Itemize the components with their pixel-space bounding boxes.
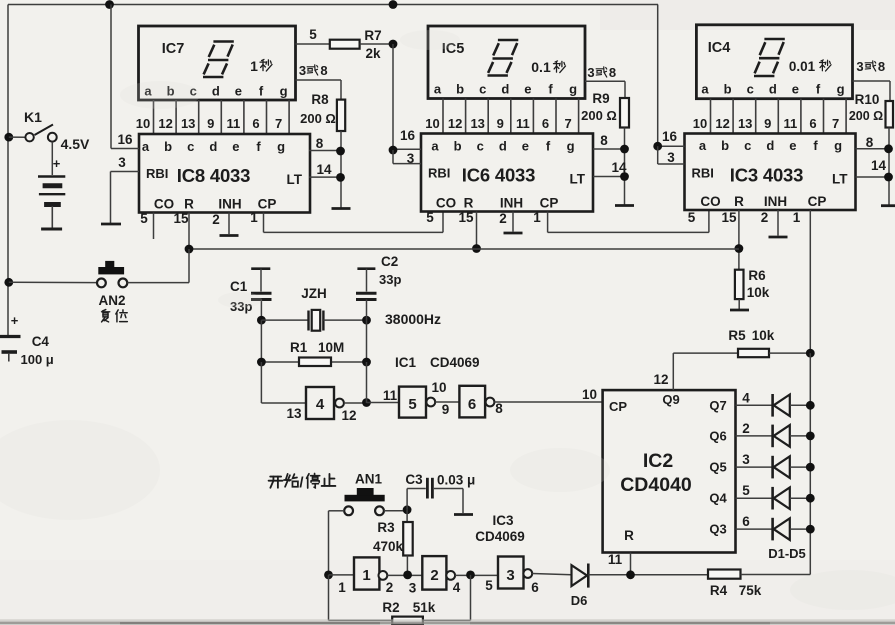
- pin numbers 10 12 13 9 11 6 7 of IC8: [136, 116, 282, 131]
- svg-text:CO: CO: [436, 196, 456, 211]
- svg-text:f: f: [813, 138, 818, 153]
- svg-text:g: g: [569, 82, 577, 97]
- svg-text:b: b: [724, 82, 732, 97]
- wire: Q3 output to diode D5: [736, 528, 773, 530]
- junction: gate2 output / R2 feedback node: [466, 571, 475, 580]
- svg-text:16: 16: [662, 129, 678, 144]
- wire: IC8 pin 8 to R8 column: [309, 150, 341, 152]
- svg-text:1: 1: [250, 210, 258, 225]
- svg-text:33p: 33p: [379, 272, 401, 287]
- IC6 input letters a-g: [431, 139, 574, 154]
- svg-text:3: 3: [667, 150, 675, 165]
- svg-text:C4: C4: [32, 334, 50, 349]
- capacitor C2 33p: [356, 293, 377, 299]
- wire: AN1 left contact to gate1 input node: [329, 510, 345, 512]
- svg-text:2: 2: [212, 212, 220, 227]
- svg-text:5: 5: [426, 210, 434, 225]
- junction: left rail / K1: [4, 133, 13, 142]
- svg-text:R9: R9: [592, 91, 609, 106]
- svg-text:15: 15: [458, 210, 474, 225]
- wire: crystal left lead: [261, 319, 308, 321]
- svg-text:R4: R4: [710, 583, 728, 598]
- svg-text:75k: 75k: [739, 583, 762, 598]
- svg-text:g: g: [280, 84, 288, 99]
- svg-text:10: 10: [425, 116, 439, 131]
- gate 5 output bubble: [426, 398, 435, 407]
- svg-text:14: 14: [871, 158, 887, 173]
- svg-text:CO: CO: [154, 197, 174, 212]
- svg-text:100 μ: 100 μ: [21, 352, 54, 367]
- svg-text:Q5: Q5: [709, 460, 726, 475]
- junction: crystal left node: [257, 316, 266, 325]
- wire: Q5 output to diode D3: [736, 466, 773, 468]
- svg-text:12: 12: [448, 116, 462, 131]
- ground: IC8 INH: [220, 234, 239, 237]
- switch K1 contacts and lever: [25, 125, 56, 142]
- display IC4 (7-segment LED) box: [696, 25, 852, 99]
- junction: D2 on common rail: [806, 432, 815, 441]
- wire: diode D5 to common rail: [790, 528, 811, 530]
- ground: IC3 INH: [769, 236, 788, 239]
- svg-text:5: 5: [309, 27, 317, 42]
- svg-text:D6: D6: [571, 593, 588, 608]
- svg-text:JZH: JZH: [301, 286, 327, 301]
- svg-text:IC3 4033: IC3 4033: [730, 165, 803, 186]
- svg-text:13: 13: [286, 406, 302, 421]
- diode D2: [773, 425, 790, 448]
- svg-text:IC4: IC4: [708, 40, 731, 56]
- svg-text:2k: 2k: [365, 46, 381, 61]
- svg-text:0.03 μ: 0.03 μ: [437, 473, 475, 488]
- svg-text:LT: LT: [287, 172, 303, 187]
- svg-text:RBI: RBI: [146, 166, 168, 181]
- svg-text:R: R: [734, 194, 744, 209]
- wire: C2 to crystal node: [366, 300, 368, 321]
- svg-text:CP: CP: [540, 196, 559, 211]
- IC7 7-segment digit: [203, 42, 234, 78]
- wire: IC6 LT pin 14 to column: [593, 176, 625, 178]
- svg-text:3: 3: [299, 63, 306, 78]
- svg-text:+: +: [53, 156, 61, 171]
- svg-text:8: 8: [600, 133, 608, 148]
- svg-text:11: 11: [784, 116, 798, 131]
- svg-text:4: 4: [742, 390, 750, 405]
- wire: Q9 pin 12 up to R5 node: [672, 353, 674, 390]
- resistor R8: [337, 100, 345, 131]
- junction: IC3 pin14 column: [884, 173, 893, 182]
- svg-text:CP: CP: [808, 194, 827, 209]
- IC7 segment letters a-g: [144, 84, 287, 99]
- svg-text:Q3: Q3: [709, 522, 726, 537]
- svg-text:R7: R7: [364, 28, 381, 43]
- junction: D5 on common rail: [806, 525, 815, 534]
- counter IC2 CD4040 box: [603, 390, 736, 552]
- gate 2 output bubble: [446, 571, 455, 580]
- junction: IC3 R / reset rail / R6: [735, 244, 744, 253]
- svg-text:38000Hz: 38000Hz: [385, 311, 441, 327]
- svg-text:D1-D5: D1-D5: [768, 546, 806, 561]
- svg-text:5: 5: [140, 211, 148, 226]
- ground: R6: [730, 309, 749, 312]
- gate 6 output bubble: [486, 398, 495, 407]
- junction: left rail / AN2 row: [4, 278, 13, 287]
- ground: R9 column: [615, 204, 634, 207]
- capacitor C1 top open terminal: [251, 267, 270, 270]
- svg-text:IC8 4033: IC8 4033: [177, 165, 250, 186]
- wire: C3 right plate to ground: [434, 488, 463, 490]
- wire: IC8 CO pin 5 stub: [153, 213, 155, 240]
- wire: gate1 output to gate2 input: [387, 574, 422, 576]
- ground: R8 column: [332, 207, 351, 210]
- svg-text:9: 9: [207, 116, 214, 131]
- svg-text:R: R: [464, 196, 474, 211]
- svg-text:1: 1: [533, 210, 541, 225]
- svg-text:g: g: [277, 139, 285, 154]
- wire: AN2 right contact to reset rail: [127, 282, 189, 284]
- svg-text:+: +: [11, 313, 19, 328]
- svg-text:16: 16: [400, 128, 416, 143]
- junction: top rail to IC8 pin16 feed: [105, 0, 114, 9]
- wire: IC3 LT pin 14 to column: [856, 176, 890, 178]
- wire: IC5 decimal pin to R9: [585, 80, 625, 82]
- svg-text:R6: R6: [748, 268, 766, 283]
- svg-text:g: g: [834, 138, 842, 153]
- svg-text:C2: C2: [381, 254, 398, 269]
- wire: rail to K1: [9, 136, 26, 138]
- ground: IC8 RBI: [101, 223, 121, 226]
- svg-text:b: b: [454, 139, 462, 154]
- diode D1: [773, 394, 790, 417]
- svg-text:IC3: IC3: [492, 513, 514, 528]
- display IC5 (7-segment LED) box: [428, 26, 585, 99]
- ground: C3: [454, 513, 473, 516]
- svg-text:4.5V: 4.5V: [61, 136, 90, 152]
- svg-text:a: a: [701, 82, 709, 97]
- wire: AN1 right contact to R3/C3 node: [384, 510, 407, 512]
- svg-text:8: 8: [878, 59, 885, 74]
- svg-text:e: e: [232, 139, 239, 154]
- svg-text:200 Ω: 200 Ω: [300, 111, 336, 126]
- resistor R6: [735, 270, 744, 299]
- junction: D4 on common rail: [806, 494, 815, 503]
- wire: feedback right drop: [470, 575, 472, 621]
- resistor R9: [620, 98, 629, 128]
- svg-text:1: 1: [250, 58, 258, 74]
- junction: R pin 11 node: [626, 570, 635, 579]
- svg-text:4: 4: [453, 580, 461, 595]
- IC8 input letters a-g: [142, 139, 285, 154]
- svg-text:8: 8: [866, 135, 874, 150]
- svg-text:3: 3: [742, 452, 750, 467]
- wire: node to gate 5 input: [367, 402, 400, 404]
- svg-text:16: 16: [117, 132, 133, 147]
- wire: R7 to VDD column: [360, 43, 393, 45]
- svg-text:c: c: [747, 82, 754, 97]
- wire: diode D4 to common rail: [790, 497, 811, 499]
- svg-text:R1: R1: [290, 340, 308, 355]
- svg-text:6: 6: [809, 116, 816, 131]
- svg-text:4: 4: [316, 396, 325, 413]
- svg-text:IC2: IC2: [643, 450, 674, 472]
- resistor R5: [738, 349, 769, 357]
- wire: reset rail (R pins of IC8/IC6/IC3): [189, 248, 739, 250]
- svg-text:IC1: IC1: [395, 355, 417, 370]
- wire: crystal right lead: [323, 319, 366, 321]
- svg-text:CD4069: CD4069: [475, 529, 525, 544]
- wire: oscillator node down from R1 right: [366, 362, 368, 403]
- svg-text:c: c: [744, 138, 751, 153]
- svg-text:2: 2: [386, 580, 394, 595]
- svg-text:0.1: 0.1: [531, 59, 551, 75]
- wire: IC4 decimal pin to R10: [853, 80, 891, 82]
- diode D5: [773, 518, 790, 541]
- junction: timing node (R5/CP IC3/diode rail): [806, 349, 815, 358]
- wire: R6 to ground: [738, 299, 740, 309]
- diode D3: [773, 456, 790, 479]
- svg-text:13: 13: [470, 116, 484, 131]
- svg-text:8: 8: [320, 63, 327, 78]
- inverter gate IC3-3: [498, 557, 524, 589]
- svg-text:10k: 10k: [747, 285, 770, 300]
- svg-text:2: 2: [761, 210, 769, 225]
- svg-text:f: f: [816, 82, 821, 97]
- IC5 segment letters a-g: [434, 82, 577, 97]
- wire: feedback left drop: [328, 575, 330, 621]
- svg-text:CO: CO: [700, 194, 720, 209]
- wire: VDD column to IC6 pin 16: [392, 44, 394, 150]
- svg-text:LT: LT: [570, 172, 586, 187]
- junction: crystal right node: [362, 316, 371, 325]
- wire: IC6 pin 8 to R9 column: [593, 148, 625, 150]
- svg-text:5: 5: [742, 483, 750, 498]
- svg-text:8: 8: [609, 65, 616, 80]
- capacitor C3 0.03μ: [427, 478, 432, 499]
- svg-text:g: g: [567, 139, 575, 154]
- svg-text:R: R: [184, 197, 194, 212]
- svg-text:d: d: [209, 139, 217, 154]
- gate 1 output bubble: [379, 571, 388, 580]
- wire: node down to R3: [406, 510, 408, 522]
- wire: Q6 output to diode D2: [736, 435, 773, 437]
- svg-text:CP: CP: [609, 399, 627, 414]
- junction: R3 bottom node: [403, 571, 412, 580]
- capacitor C2 top open terminal: [357, 267, 375, 270]
- svg-text:13: 13: [738, 116, 752, 131]
- wire: R4 to diode common rail: [741, 574, 811, 576]
- svg-text:d: d: [766, 138, 774, 153]
- svg-text:a: a: [434, 82, 442, 97]
- scan shading bottom: [0, 560, 895, 625]
- svg-text:AN2: AN2: [98, 293, 125, 308]
- pin numbers 10 12 13 9 11 6 7 of IC6: [425, 116, 571, 131]
- wire: C1 to crystal node: [260, 300, 262, 321]
- junction: R7 / VDD column: [389, 40, 398, 49]
- wire: VDD rail corner down to IC3 pin 16: [657, 5, 659, 147]
- svg-text:6: 6: [542, 116, 549, 131]
- inverter gate IC3-2: [422, 556, 446, 590]
- svg-text:c: c: [187, 139, 194, 154]
- svg-text:13: 13: [181, 116, 195, 131]
- ground: IC6 INH: [504, 232, 523, 235]
- junction: IC6 R on reset rail: [472, 244, 481, 253]
- wire: IC6 CP pin 1 to IC3 CO: [547, 212, 549, 233]
- svg-text:R3: R3: [377, 520, 395, 535]
- svg-text:10M: 10M: [318, 340, 344, 355]
- wire: rail to AN2 left contact: [9, 281, 97, 283]
- wire: IC3 pin 8 to R10 column: [856, 148, 890, 150]
- junction: VDD column / pin16 IC6: [389, 146, 398, 155]
- svg-text:200 Ω: 200 Ω: [581, 108, 617, 123]
- junction: IC8 R / AN2 branch: [185, 245, 194, 254]
- svg-text:10: 10: [693, 116, 707, 131]
- svg-text:LT: LT: [832, 172, 848, 187]
- svg-text:C1: C1: [230, 279, 248, 294]
- svg-text:RBI: RBI: [428, 166, 450, 181]
- wire: left VDD rail (battery + to top rail): [7, 5, 9, 336]
- svg-text:b: b: [164, 139, 172, 154]
- svg-text:6: 6: [531, 580, 539, 595]
- IC3 input letters a-g: [699, 138, 842, 153]
- svg-text:e: e: [522, 139, 529, 154]
- wire: IC6 INH pin 2 to ground: [512, 212, 514, 232]
- wire: R1 row: [261, 361, 366, 363]
- inverter gate IC1-6: [459, 386, 485, 418]
- wire: Q4 output to diode D4: [736, 497, 773, 499]
- svg-text:11: 11: [608, 552, 623, 567]
- wire: IC3 R pin 15 to reset rail and R6: [738, 210, 740, 270]
- svg-text:Q7: Q7: [709, 398, 726, 413]
- inverter gate IC3-1: [354, 557, 379, 589]
- svg-text:a: a: [142, 139, 150, 154]
- svg-text:CD4069: CD4069: [430, 355, 480, 370]
- svg-text:10: 10: [136, 116, 150, 131]
- svg-text:f: f: [548, 82, 553, 97]
- svg-text:R5: R5: [728, 328, 746, 343]
- wires: IC7 to IC8 segment connections: [154, 100, 290, 134]
- svg-text:Q4: Q4: [709, 491, 727, 506]
- wire: gate6 output to IC2 CP: [494, 401, 602, 403]
- svg-text:11: 11: [383, 388, 398, 403]
- wire: diode D2 to common rail: [790, 435, 811, 437]
- pushbutton AN2 (reset): [97, 261, 127, 287]
- gate 3 output bubble: [523, 569, 532, 578]
- svg-text:d: d: [212, 84, 220, 99]
- capacitor C4 100u: [0, 337, 21, 362]
- svg-text:INH: INH: [218, 197, 241, 212]
- resistor R1: [299, 358, 331, 367]
- svg-text:f: f: [259, 84, 264, 99]
- svg-text:R8: R8: [311, 92, 329, 107]
- svg-text:12: 12: [158, 116, 172, 131]
- wire: feedback bottom run: [329, 619, 471, 621]
- svg-text:9: 9: [764, 116, 771, 131]
- junction: IC3 pin8 column: [884, 144, 893, 153]
- junction: D1 on common rail: [806, 401, 815, 410]
- svg-text:5: 5: [485, 578, 493, 593]
- svg-text:Q9: Q9: [662, 392, 679, 407]
- wire: C2 terminal stem: [366, 269, 368, 292]
- svg-text:e: e: [789, 138, 796, 153]
- diode D4: [773, 487, 790, 510]
- IC4 segment letters a-g: [701, 82, 844, 97]
- svg-text:INH: INH: [764, 194, 787, 209]
- svg-text:2: 2: [742, 421, 750, 436]
- counter IC6 4033 box: [421, 134, 593, 212]
- resistor R7: [330, 40, 360, 49]
- wire: IC3 RBI pin 3 tap: [657, 146, 659, 164]
- wire: diode common rail (vertical): [809, 353, 811, 574]
- wire: IC6 RBI pin 3 tap: [392, 150, 394, 164]
- wire: R5 to timing node: [769, 352, 810, 354]
- wire: IC2 R pin 11 down: [630, 553, 632, 575]
- IC4 7-segment digit: [754, 39, 785, 76]
- junction: IC6 pin14 column: [620, 172, 629, 181]
- display IC7 (7-segment LED) box: [139, 26, 296, 100]
- wire: VDD drop to IC8 pin 16: [110, 5, 112, 149]
- pushbutton AN1 (start/stop): [344, 488, 385, 515]
- junction: R1 left: [257, 358, 266, 367]
- scanner artifact band at bottom edge: [0, 622, 895, 625]
- label 开始/停止 (start/stop): [269, 477, 283, 488]
- svg-text:0.01: 0.01: [789, 59, 816, 74]
- svg-text:11: 11: [227, 116, 241, 131]
- wire: IC6 R pin 15 to reset rail: [476, 212, 478, 250]
- wire: R1 left node down to gate 4 input: [260, 362, 262, 403]
- ground: battery negative terminal: [41, 228, 62, 231]
- wire: node up to C3: [406, 489, 408, 510]
- pin numbers 10 12 13 9 11 6 7 of IC3: [693, 116, 839, 131]
- svg-text:3: 3: [409, 581, 417, 596]
- svg-text:f: f: [256, 139, 261, 154]
- svg-text:c: c: [477, 139, 484, 154]
- counter IC3 4033 box: [685, 134, 856, 211]
- junction: VDD column / IC3 pin16: [653, 142, 662, 151]
- svg-text:8: 8: [495, 401, 503, 416]
- wire: gate5 to gate6: [435, 401, 459, 403]
- junction: pin14/R8 column: [336, 173, 345, 182]
- svg-text:R10: R10: [855, 92, 880, 107]
- svg-text:d: d: [501, 82, 509, 97]
- IC8 CO R INH CP labels: [154, 197, 277, 212]
- svg-text:e: e: [792, 82, 799, 97]
- gate 4 output bubble: [335, 399, 344, 408]
- svg-text:14: 14: [316, 162, 332, 177]
- svg-text:7: 7: [564, 116, 571, 131]
- wire: IC7 decimal pin to R8: [296, 79, 342, 81]
- wire: IC3 INH pin 2 to ground: [777, 210, 779, 236]
- svg-text:a: a: [431, 139, 439, 154]
- junction: gate4 output / C2 branch: [362, 398, 371, 407]
- svg-text:3: 3: [587, 65, 594, 80]
- svg-text:e: e: [524, 82, 531, 97]
- svg-text:d: d: [769, 82, 777, 97]
- wires: IC5 to IC6 segment connections: [443, 99, 579, 134]
- diode D6: [572, 564, 589, 588]
- wire: D6 to IC2 R node: [588, 574, 708, 576]
- svg-text:3: 3: [118, 155, 126, 170]
- junction: top rail to R7 / IC6 pin16 feed: [389, 0, 398, 9]
- resistor R2: [392, 617, 423, 625]
- svg-text:15: 15: [173, 211, 189, 226]
- battery B1 (4.5V) plates: [38, 177, 65, 228]
- svg-text:g: g: [837, 82, 845, 97]
- svg-text:CP: CP: [258, 197, 277, 212]
- svg-text:a: a: [699, 138, 707, 153]
- svg-text:Q6: Q6: [709, 428, 726, 443]
- resistor R3: [403, 522, 413, 556]
- svg-text:c: c: [479, 82, 486, 97]
- svg-text:10: 10: [431, 380, 446, 395]
